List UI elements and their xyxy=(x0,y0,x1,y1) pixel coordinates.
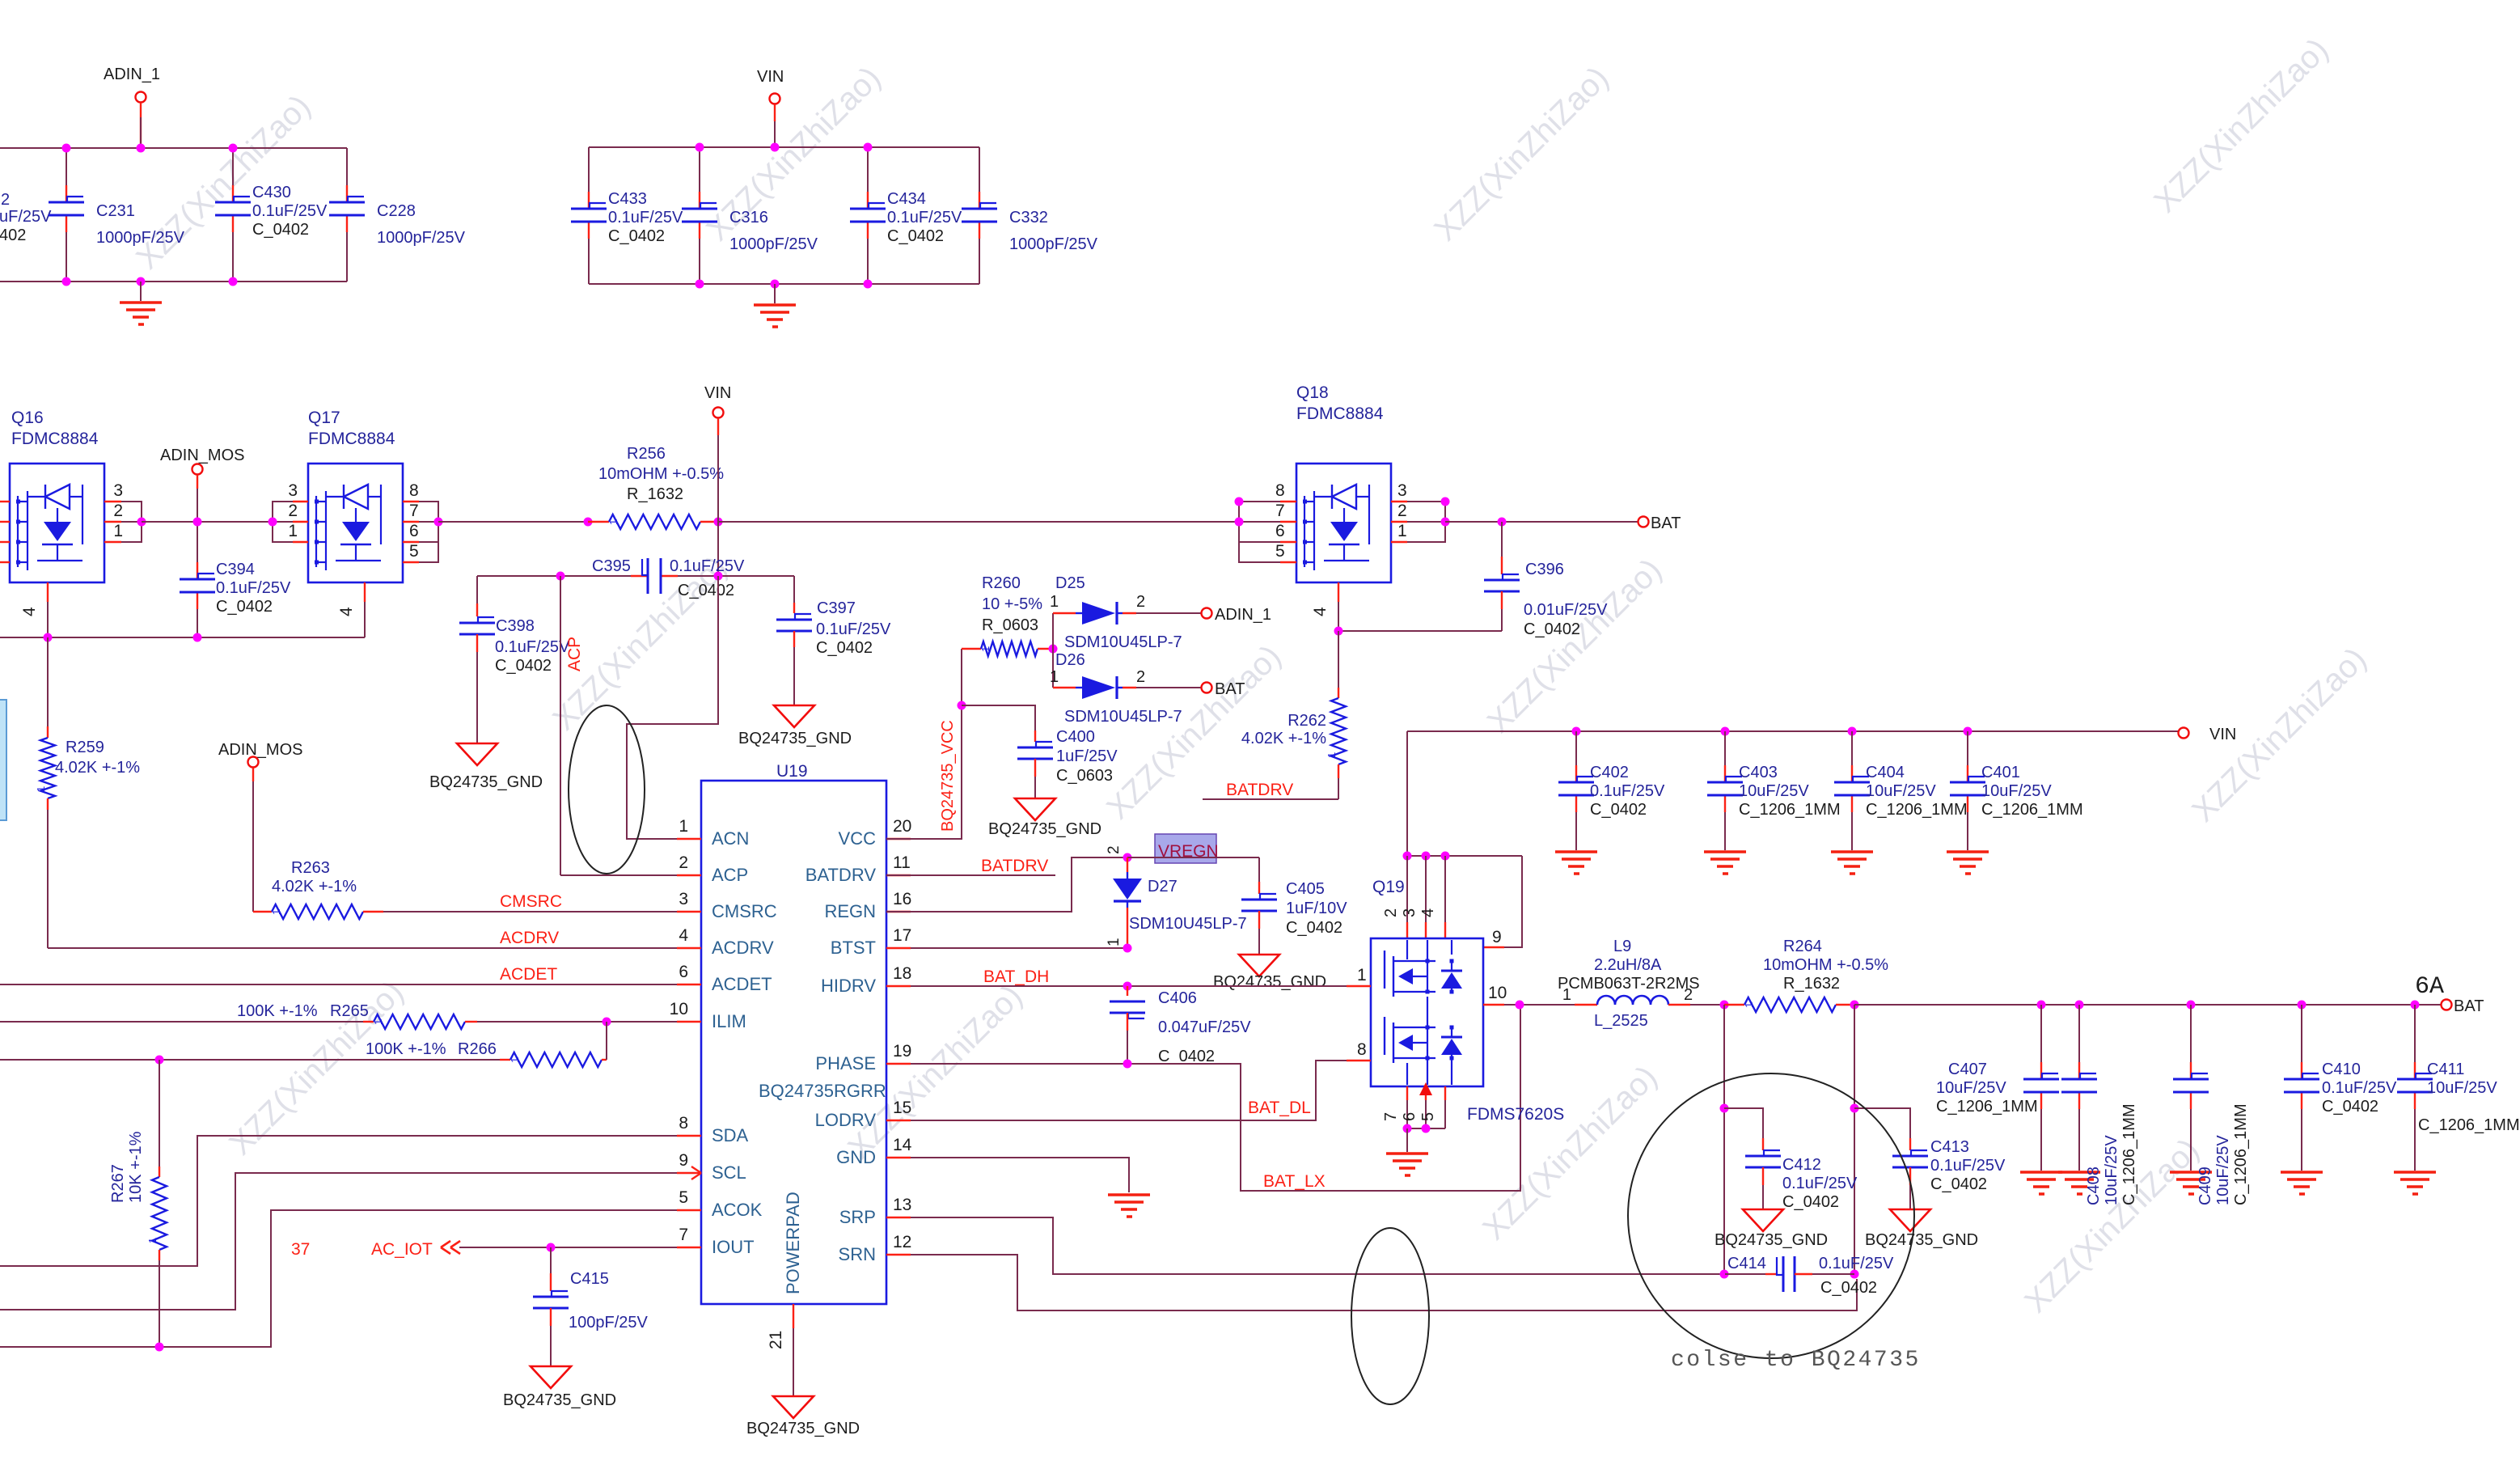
wire Q17 right connector pins 8,7,6,5 xyxy=(403,501,419,502)
svg-text:6: 6 xyxy=(679,963,688,981)
svg-text:C400: C400 xyxy=(1056,728,1095,746)
capacitor C405 xyxy=(1258,857,1260,882)
wire VCC pin 20 xyxy=(886,649,962,839)
ground under C402 xyxy=(1555,850,1597,853)
svg-text:8: 8 xyxy=(409,481,419,500)
svg-text:Q19: Q19 xyxy=(1372,878,1405,896)
svg-text:10: 10 xyxy=(670,1000,688,1018)
wire Q18 left connector pins 8,7,6,5 xyxy=(1280,501,1296,502)
ground under C408 xyxy=(2058,1171,2100,1174)
capacitor C332 xyxy=(979,192,980,209)
net label VREGN highlighted xyxy=(1155,834,1216,863)
capacitor C412 xyxy=(1724,1108,1763,1138)
svg-text:C401: C401 xyxy=(1981,764,2020,781)
svg-text:D26: D26 xyxy=(1055,651,1085,669)
wire ACDET xyxy=(0,984,677,985)
ground BQ24735_GND under C405 xyxy=(1239,955,1279,976)
wire C396 bottom to Q18 pin4 xyxy=(1338,630,1502,632)
node junctions top bank xyxy=(62,144,71,153)
svg-text:C_1206_1MM: C_1206_1MM xyxy=(2418,1116,2520,1134)
capacitor C398 xyxy=(476,576,478,603)
svg-text:C228: C228 xyxy=(377,202,416,220)
svg-text:1: 1 xyxy=(372,1019,384,1025)
capacitor C395 xyxy=(631,575,648,577)
svg-text:POWERPAD: POWERPAD xyxy=(783,1192,803,1294)
svg-text:C_0603: C_0603 xyxy=(1056,767,1113,785)
svg-text:1000pF/25V: 1000pF/25V xyxy=(96,229,185,247)
ground under C404 xyxy=(1831,850,1873,853)
svg-text:C332: C332 xyxy=(1009,209,1048,227)
capacitor C403 xyxy=(1724,731,1726,765)
svg-text:0.1uF/25V: 0.1uF/25V xyxy=(252,202,328,220)
svg-text:0.1uF/25V: 0.1uF/25V xyxy=(1782,1175,1858,1192)
node ACP tap xyxy=(584,518,593,527)
svg-text:18: 18 xyxy=(893,964,911,983)
svg-text:0.1uF/25V: 0.1uF/25V xyxy=(495,638,570,656)
svg-text:C407: C407 xyxy=(1948,1061,1987,1078)
ground BQ24735_GND under C398 xyxy=(457,743,497,765)
svg-text:C396: C396 xyxy=(1525,561,1564,578)
svg-text:IOUT: IOUT xyxy=(712,1237,755,1257)
U19 pin 3 CMSRC xyxy=(677,911,701,912)
svg-text:1: 1 xyxy=(1326,752,1338,758)
svg-text:10 +-5%: 10 +-5% xyxy=(982,595,1042,613)
svg-text:10uF/25V: 10uF/25V xyxy=(1866,782,1936,800)
svg-text:HIDRV: HIDRV xyxy=(821,976,876,996)
svg-text:13: 13 xyxy=(893,1196,911,1214)
svg-text:4: 4 xyxy=(679,926,688,945)
svg-text:C_1206_1MM: C_1206_1MM xyxy=(1739,801,1841,819)
node C396 tap xyxy=(1498,518,1507,527)
node C406 bottom on PHASE xyxy=(1123,1060,1132,1069)
svg-text:ACP: ACP xyxy=(712,865,748,885)
svg-text:C430: C430 xyxy=(252,184,291,201)
svg-text:SDM10U45LP-7: SDM10U45LP-7 xyxy=(1064,633,1182,651)
svg-text:1: 1 xyxy=(1106,938,1123,946)
capacitor C411 xyxy=(2414,1005,2416,1062)
svg-text:0.1uF/25V: 0.1uF/25V xyxy=(887,209,962,227)
svg-text:12: 12 xyxy=(893,1233,911,1251)
svg-text:AC_IOT: AC_IOT xyxy=(371,1240,433,1259)
wire C433 column xyxy=(588,147,590,192)
svg-text:100K +-1%: 100K +-1% xyxy=(366,1040,446,1058)
svg-text:C408: C408 xyxy=(2085,1166,2103,1205)
svg-text:C412: C412 xyxy=(1782,1156,1821,1174)
ground under VIN bank xyxy=(774,284,776,303)
capacitor C414 xyxy=(1725,1273,1765,1275)
wire BAT rail right xyxy=(1854,1004,2441,1006)
svg-text:16: 16 xyxy=(893,890,911,908)
wire IOUT / AC_IOT xyxy=(459,1247,677,1248)
op-amp U19 BQ24735RGRR block xyxy=(701,781,886,1304)
ground under C410 xyxy=(2281,1171,2323,1174)
wire VIN rail y904 xyxy=(1407,730,2179,732)
svg-text:C405: C405 xyxy=(1286,880,1325,898)
wire BATDRV from R262 xyxy=(1203,798,1338,800)
svg-text:7: 7 xyxy=(679,1226,688,1244)
U19 pin 8 SDA xyxy=(677,1135,701,1137)
node C406 top xyxy=(1123,982,1132,991)
wire SRN pin 12 xyxy=(911,1255,1857,1310)
svg-text:10uF/25V: 10uF/25V xyxy=(1739,782,1809,800)
svg-text:C404: C404 xyxy=(1866,764,1905,781)
svg-text:4: 4 xyxy=(1311,607,1330,616)
wire PHASE/BAT_LX pin 19 xyxy=(911,1005,1520,1191)
node ACP drop xyxy=(556,572,565,581)
svg-text:1: 1 xyxy=(1357,966,1367,984)
wire SDA xyxy=(0,1136,677,1266)
svg-text:3: 3 xyxy=(288,481,298,500)
svg-text:6A: 6A xyxy=(2415,973,2444,1001)
wire Q18 right connector pins 3,2,1 xyxy=(1391,501,1407,502)
svg-text:BATDRV: BATDRV xyxy=(805,865,877,885)
svg-text:CMSRC: CMSRC xyxy=(712,901,777,921)
svg-text:R_1632: R_1632 xyxy=(1783,975,1840,993)
svg-text:2: 2 xyxy=(1397,502,1407,520)
resistor R259 xyxy=(47,637,49,726)
svg-text:4.02K +-1%: 4.02K +-1% xyxy=(55,759,140,777)
U19 pin 9 SCL xyxy=(677,1172,701,1174)
wire R266 row xyxy=(0,1059,510,1061)
wire Q17 left connector pins 3,2,1 xyxy=(293,501,308,502)
svg-text:1: 1 xyxy=(146,1238,159,1243)
svg-text:0.1uF/25V: 0.1uF/25V xyxy=(816,620,891,638)
svg-text:BAT: BAT xyxy=(1215,680,1245,698)
svg-text:ADIN_1: ADIN_1 xyxy=(104,66,160,83)
svg-text:D27: D27 xyxy=(1148,878,1178,896)
node R260/D25/D26 xyxy=(1049,645,1058,654)
svg-text:C_0402: C_0402 xyxy=(1524,620,1580,638)
svg-text:C316: C316 xyxy=(729,209,768,227)
svg-text:C_0402: C_0402 xyxy=(887,227,944,245)
U19 pin 17 BTST xyxy=(886,947,911,949)
svg-text:7: 7 xyxy=(1382,1112,1400,1121)
svg-text:R267: R267 xyxy=(109,1164,127,1203)
svg-text:6: 6 xyxy=(409,522,419,540)
wire BTST pin 17 xyxy=(911,947,1127,949)
U19 pin 11 BATDRV xyxy=(886,874,911,876)
svg-text:10: 10 xyxy=(1488,984,1507,1002)
svg-text:GND: GND xyxy=(836,1147,876,1167)
resistor R260 xyxy=(962,648,981,650)
svg-text:9: 9 xyxy=(1492,928,1502,946)
wire sense tap left xyxy=(1723,1005,1725,1274)
svg-text:2: 2 xyxy=(1136,668,1145,686)
svg-text:C414: C414 xyxy=(1727,1255,1766,1272)
svg-text:SDM10U45LP-7: SDM10U45LP-7 xyxy=(1129,915,1247,933)
node VREGN/D27 xyxy=(1123,853,1132,862)
ground under C407 xyxy=(2020,1171,2062,1174)
U19 pin 16 REGN xyxy=(886,911,911,912)
svg-text:D25: D25 xyxy=(1055,574,1085,592)
svg-text:1: 1 xyxy=(607,519,619,525)
inductor L9 xyxy=(1575,1004,1597,1006)
wire C332 column xyxy=(979,147,980,192)
svg-text:2: 2 xyxy=(1136,593,1145,611)
svg-text:3: 3 xyxy=(1397,481,1407,500)
svg-text:BATDRV: BATDRV xyxy=(1226,781,1293,799)
svg-text:ACP: ACP xyxy=(565,637,584,671)
svg-text:L_2525: L_2525 xyxy=(1594,1012,1648,1030)
node junctions VIN bank xyxy=(696,143,704,152)
svg-text:ADIN_MOS: ADIN_MOS xyxy=(218,741,302,759)
svg-text:C_0402: C_0402 xyxy=(216,598,273,616)
svg-text:6: 6 xyxy=(1275,522,1285,540)
svg-text:R265: R265 xyxy=(330,1002,369,1020)
svg-text:ACDET: ACDET xyxy=(500,965,557,984)
wire Q19 supply drop xyxy=(1406,731,1408,856)
svg-text:FDMC8884: FDMC8884 xyxy=(11,430,99,448)
svg-text:0.01uF/25V: 0.01uF/25V xyxy=(1524,601,1608,619)
svg-text:BAT: BAT xyxy=(2454,997,2484,1015)
wire C434 column xyxy=(867,147,869,192)
svg-text:PHASE: PHASE xyxy=(815,1053,876,1073)
wire rail R256 to Q18 xyxy=(718,521,1239,523)
U19 pin 21 POWERPAD xyxy=(793,1304,794,1328)
svg-text:BQ24735_GND: BQ24735_GND xyxy=(429,773,543,791)
wire VIN bank top rail xyxy=(589,146,979,148)
wire rail Q17 to R256 xyxy=(438,521,588,523)
svg-text:C433: C433 xyxy=(608,190,647,208)
svg-text:ACOK: ACOK xyxy=(712,1200,763,1220)
node BTST/D27 xyxy=(1123,944,1132,953)
ground under Q19 xyxy=(1406,1128,1408,1152)
svg-text:2: 2 xyxy=(288,502,298,520)
svg-text:3: 3 xyxy=(113,481,123,500)
svg-text:4: 4 xyxy=(1419,908,1437,917)
port VIN right xyxy=(2179,728,2189,739)
svg-text:C398: C398 xyxy=(496,617,535,635)
svg-text:10uF/25V: 10uF/25V xyxy=(1981,782,2052,800)
svg-text:C409: C409 xyxy=(2197,1166,2214,1205)
svg-text:0.1uF/25V: 0.1uF/25V xyxy=(670,557,745,575)
ground under ADIN_1 bank xyxy=(140,282,142,301)
svg-text:10uF/25V: 10uF/25V xyxy=(2427,1079,2497,1097)
svg-text:FDMC8884: FDMC8884 xyxy=(1296,404,1384,423)
annotation ellipse SRP/SRN xyxy=(1351,1228,1429,1404)
resistor R267 xyxy=(159,1060,160,1166)
ground BQ24735_GND under C400 xyxy=(1015,798,1055,820)
svg-text:R_0603: R_0603 xyxy=(982,616,1038,634)
svg-text:VIN: VIN xyxy=(2209,726,2236,743)
wire rail Q16 to Q17 xyxy=(142,521,273,523)
port BAT right of D26 xyxy=(1202,683,1212,693)
svg-text:C_0402: C_0402 xyxy=(1782,1193,1839,1211)
svg-text:ACDRV: ACDRV xyxy=(712,938,774,958)
svg-text:BQ24735RGRR: BQ24735RGRR xyxy=(759,1081,886,1101)
svg-text:4: 4 xyxy=(20,607,39,616)
transistor Q18 FDMC8884 xyxy=(1296,464,1391,582)
capacitor C396 xyxy=(1501,522,1503,557)
wire ADIN_1 drop xyxy=(140,117,142,148)
svg-text:21: 21 xyxy=(767,1331,785,1349)
svg-text:ACDET: ACDET xyxy=(712,974,772,994)
svg-text:1: 1 xyxy=(1743,1002,1755,1008)
U19 pin 1 ACN xyxy=(677,838,701,840)
wire ACDRV xyxy=(48,947,677,949)
svg-text:ILIM: ILIM xyxy=(712,1011,746,1031)
U19 pin 15 LODRV xyxy=(886,1120,911,1121)
svg-text:8: 8 xyxy=(1275,481,1285,500)
transistor Q16 FDMC8884 xyxy=(10,464,104,582)
svg-text:Q17: Q17 xyxy=(308,409,340,427)
U19 pin 10 ILIM xyxy=(677,1021,701,1023)
wire ADIN_MOS column xyxy=(197,489,198,522)
svg-text:Q18: Q18 xyxy=(1296,383,1329,402)
svg-text:37: 37 xyxy=(291,1240,310,1259)
wire VIN node down to C395 row xyxy=(717,522,719,576)
capacitor C410 xyxy=(2301,1005,2302,1062)
capacitor C397 xyxy=(793,576,795,603)
svg-text:SDA: SDA xyxy=(712,1125,749,1145)
node VCC/VIN xyxy=(714,572,723,581)
capacitor C400 xyxy=(1034,730,1036,742)
node R264 right xyxy=(1850,1001,1859,1010)
svg-text:SCL: SCL xyxy=(712,1162,746,1183)
svg-text:19: 19 xyxy=(893,1042,911,1061)
svg-text:1uF/10V: 1uF/10V xyxy=(1286,900,1347,917)
wire Q16 left pin stubs xyxy=(0,501,10,502)
svg-text:BQ24735_GND: BQ24735_GND xyxy=(746,1420,860,1437)
svg-text:1uF/25V: 1uF/25V xyxy=(1056,747,1118,765)
svg-text:10mOHM +-0.5%: 10mOHM +-0.5% xyxy=(1763,956,1888,974)
capacitor C430 xyxy=(232,185,234,202)
svg-text:0.1uF/25V: 0.1uF/25V xyxy=(216,579,291,597)
ground BQ24735_GND under U19 xyxy=(773,1396,814,1418)
capacitor C228 xyxy=(346,185,348,202)
svg-text:R260: R260 xyxy=(982,574,1021,592)
svg-text:C231: C231 xyxy=(96,202,135,220)
svg-text:11: 11 xyxy=(893,853,911,872)
wire C430 column xyxy=(232,148,234,185)
svg-text:BAT: BAT xyxy=(1651,514,1681,532)
svg-text:17: 17 xyxy=(893,926,911,945)
annotation circle close-to-BQ24735 xyxy=(1628,1073,1914,1358)
svg-text:8: 8 xyxy=(679,1114,688,1133)
resistor R264 xyxy=(1724,1004,1744,1006)
red arrow marker at Q19 pin 6 xyxy=(1419,1082,1432,1095)
svg-text:C_0402: C_0402 xyxy=(1286,919,1342,937)
svg-text:R256: R256 xyxy=(627,445,666,463)
svg-text:C434: C434 xyxy=(887,190,926,208)
svg-text:C_1206_1MM: C_1206_1MM xyxy=(2232,1103,2250,1205)
svg-text:BQ24735_GND: BQ24735_GND xyxy=(1865,1231,1978,1249)
node C414 left xyxy=(1720,1270,1729,1279)
svg-text:1: 1 xyxy=(979,646,992,652)
svg-text:R264: R264 xyxy=(1783,938,1822,955)
svg-text:C397: C397 xyxy=(817,599,856,617)
svg-text:BQ24735_GND: BQ24735_GND xyxy=(1715,1231,1828,1249)
capacitor C415 xyxy=(550,1247,552,1273)
node pin10/L9/BAT_LX xyxy=(1516,1001,1524,1010)
transistor Q19 FDMS7620S xyxy=(1371,938,1483,1086)
svg-text:R_1632: R_1632 xyxy=(627,485,683,503)
node VIN tap xyxy=(714,518,723,527)
U19 pin 4 ACDRV xyxy=(677,947,701,949)
port BAT (top) xyxy=(1638,517,1649,527)
wire HIDRV/BAT_DH pin 18 xyxy=(911,985,1347,987)
svg-text:9: 9 xyxy=(679,1151,688,1170)
capacitor C406 xyxy=(1127,986,1128,996)
port BAT 6A xyxy=(2442,1000,2452,1010)
svg-text:R259: R259 xyxy=(66,739,104,756)
svg-text:10K +-1%: 10K +-1% xyxy=(127,1131,145,1203)
node C412 tap xyxy=(1720,1104,1729,1113)
svg-text:0.047uF/25V: 0.047uF/25V xyxy=(1158,1018,1251,1036)
wire Q19 pin 9 xyxy=(1504,856,1522,947)
resistor R266 xyxy=(500,1059,510,1061)
capacitor C408 xyxy=(2078,1005,2080,1062)
svg-text:SRP: SRP xyxy=(839,1207,876,1227)
capacitor C394 xyxy=(197,561,198,563)
capacitor C409 xyxy=(2190,1005,2192,1062)
svg-text:2: 2 xyxy=(679,853,688,872)
resistor R263 xyxy=(253,911,272,912)
svg-text:R263: R263 xyxy=(291,859,330,877)
resistor R256 xyxy=(588,521,609,523)
svg-text:1000pF/25V: 1000pF/25V xyxy=(1009,235,1098,253)
U19 pin 14 GND xyxy=(886,1157,911,1158)
svg-text:5: 5 xyxy=(1275,542,1285,561)
svg-text:BQ24735_GND: BQ24735_GND xyxy=(503,1391,616,1409)
node R266 join xyxy=(603,1018,611,1027)
wire rail Q18 to BAT port xyxy=(1445,521,1638,523)
Q19 pin 10 stub xyxy=(1483,1004,1504,1006)
svg-text:VCC: VCC xyxy=(839,828,877,849)
svg-text:7: 7 xyxy=(1275,502,1285,520)
svg-text:1: 1 xyxy=(679,817,688,836)
svg-text:4.02K +-1%: 4.02K +-1% xyxy=(1241,730,1326,747)
svg-text:1: 1 xyxy=(35,786,47,792)
capacitor C407 xyxy=(2040,1005,2042,1062)
wire ACN path from VIN node xyxy=(627,576,718,839)
ground under C401 xyxy=(1947,850,1989,853)
capacitor C401 xyxy=(1967,731,1968,765)
wire Q16 right connector pins 3,2,1 xyxy=(104,501,121,502)
ground BQ24735_GND under C413 xyxy=(1890,1209,1930,1231)
wire GND pin 14 xyxy=(911,1158,1129,1192)
svg-text:2: 2 xyxy=(1106,845,1123,854)
svg-text:BAT_DH: BAT_DH xyxy=(983,967,1049,986)
node L9/R264/sense-left xyxy=(1720,1001,1729,1010)
wire SRP pin 13 xyxy=(911,1217,1720,1274)
U19 pin 5 ACOK xyxy=(677,1209,701,1211)
svg-text:4: 4 xyxy=(337,607,356,616)
node Q17 input xyxy=(268,518,277,527)
wire diode branch vertical xyxy=(1052,613,1054,688)
svg-text:0.1uF/25V: 0.1uF/25V xyxy=(608,209,683,227)
svg-text:20: 20 xyxy=(893,817,911,836)
svg-text:L9: L9 xyxy=(1613,938,1631,955)
U19 pin 13 SRP xyxy=(886,1217,911,1218)
ground under C411 xyxy=(2394,1171,2436,1174)
ground under C409 xyxy=(2170,1171,2212,1174)
svg-text:1: 1 xyxy=(1050,668,1059,686)
svg-text:C_0402: C_0402 xyxy=(678,582,734,599)
U19 pin 20 VCC xyxy=(886,838,911,840)
svg-text:colse to BQ24735: colse to BQ24735 xyxy=(1671,1348,1921,1373)
wire C316 column xyxy=(699,147,700,192)
svg-text:R262: R262 xyxy=(1287,712,1326,730)
svg-text:1: 1 xyxy=(113,522,123,540)
U19 pin 6 ACDET xyxy=(677,984,701,985)
svg-text:BQ24735_GND: BQ24735_GND xyxy=(988,820,1101,838)
wire BATDRV pin 11 xyxy=(886,874,1055,876)
wire ADIN_1 bank top rail xyxy=(0,147,347,149)
svg-text:BQ24735_GND: BQ24735_GND xyxy=(738,730,852,747)
ground earth under pin 14 xyxy=(1108,1193,1150,1196)
capacitor C413 xyxy=(1854,1108,1910,1138)
